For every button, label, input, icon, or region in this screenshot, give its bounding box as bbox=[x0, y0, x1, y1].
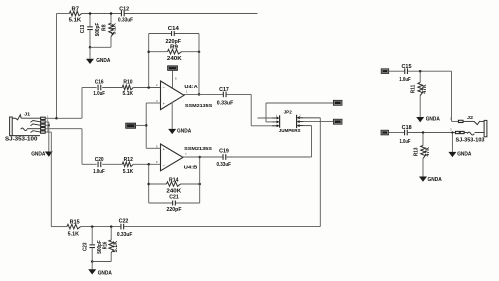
wire J1 ring down to C20 bbox=[45, 129, 96, 165]
net label (left of C18) bbox=[381, 130, 404, 135]
wire stub JP2 pin2 bbox=[303, 117, 320, 119]
op-amp U4:A SSM2135S bbox=[156, 81, 213, 110]
wire C19 to JP2 pin6 bbox=[226, 126, 311, 157]
svg-text:R14: R14 bbox=[169, 178, 179, 184]
resistor R11 bbox=[411, 83, 428, 96]
ground GNDA (J1) bbox=[31, 122, 53, 158]
svg-text:47K: 47K bbox=[425, 147, 431, 157]
wire C17 to JP2 pin5 bbox=[226, 94, 276, 125]
svg-text:GNDA: GNDA bbox=[428, 177, 443, 183]
svg-text:0.33uF: 0.33uF bbox=[217, 101, 234, 107]
wire feedback right riser B bbox=[198, 156, 201, 203]
svg-text:240K: 240K bbox=[167, 56, 182, 62]
ground GNDA (J2 sleeve) bbox=[448, 131, 471, 157]
svg-text:SJ-353-103: SJ-353-103 bbox=[456, 138, 485, 144]
svg-text:220pF: 220pF bbox=[167, 207, 182, 213]
resistor R16 bbox=[103, 240, 120, 253]
svg-text:C21: C21 bbox=[169, 195, 179, 201]
svg-text:C20: C20 bbox=[95, 157, 104, 163]
svg-text:R16: R16 bbox=[103, 242, 109, 250]
svg-text:R9: R9 bbox=[170, 45, 178, 51]
svg-text:SJ-353-100: SJ-353-100 bbox=[5, 136, 38, 142]
wire R12 to U4:B inverting input bbox=[133, 163, 160, 166]
svg-text:R7: R7 bbox=[72, 7, 80, 13]
svg-text:GNDA: GNDA bbox=[98, 271, 113, 277]
svg-text:0.33uF: 0.33uF bbox=[118, 18, 133, 24]
capacitor C16 bbox=[93, 80, 105, 98]
wire R9 rail bbox=[149, 50, 201, 53]
resistor R9 bbox=[167, 45, 182, 62]
ground GNDA (top-left) bbox=[86, 47, 111, 64]
capacitor C18 bbox=[400, 125, 412, 145]
svg-text:R10: R10 bbox=[123, 80, 132, 86]
svg-text:R13: R13 bbox=[413, 147, 419, 156]
wire feedback left riser A bbox=[147, 34, 150, 88]
net label VB (bias box) bbox=[126, 123, 147, 128]
svg-text:C14: C14 bbox=[168, 26, 179, 32]
svg-text:5.1K: 5.1K bbox=[113, 240, 119, 252]
wire J1 tip to node bbox=[45, 117, 82, 120]
svg-text:5.1K: 5.1K bbox=[123, 91, 134, 97]
wire C13 top bbox=[89, 12, 92, 26]
capacitor C22 bbox=[117, 219, 133, 239]
svg-text:J2: J2 bbox=[467, 115, 474, 120]
net label (JP2 upper right box) bbox=[333, 100, 342, 105]
svg-text:U4:A: U4:A bbox=[184, 84, 198, 90]
resistor R8 bbox=[101, 12, 117, 36]
wire R16 top bbox=[110, 227, 112, 240]
wire U4:A output to C17 bbox=[184, 93, 223, 95]
wire JP2 pin4 to net box bbox=[300, 121, 333, 123]
wire J1 switch to bottom rail bbox=[45, 132, 51, 227]
capacitor C20 bbox=[93, 157, 105, 175]
svg-text:C15: C15 bbox=[402, 64, 412, 70]
svg-text:1.0uF: 1.0uF bbox=[400, 139, 411, 145]
svg-text:C23: C23 bbox=[83, 242, 89, 251]
svg-text:C16: C16 bbox=[95, 80, 104, 86]
svg-text:1.0uF: 1.0uF bbox=[399, 77, 411, 83]
svg-text:SSM2135S: SSM2135S bbox=[185, 103, 213, 109]
wire to J2 tip pin bbox=[452, 71, 459, 121]
svg-text:0.33uF: 0.33uF bbox=[117, 232, 133, 238]
svg-text:GNDA: GNDA bbox=[457, 152, 472, 158]
capacitor C12 bbox=[118, 7, 133, 24]
jumper block JP2 bbox=[272, 109, 303, 133]
svg-text:GNDA: GNDA bbox=[31, 152, 46, 158]
capacitor C21 bbox=[167, 195, 182, 213]
wire bias to U4:B + input bbox=[146, 147, 160, 149]
wire feedback left riser B bbox=[147, 164, 150, 203]
resistor R14 bbox=[166, 178, 181, 195]
net label (left of C15) bbox=[381, 69, 404, 74]
ground GNDA (R13) bbox=[419, 158, 442, 183]
connector J1 (input jack) bbox=[5, 112, 49, 143]
wire feedback right riser A bbox=[198, 34, 201, 96]
wire stub JP2 pin3 bbox=[266, 121, 272, 123]
wire JP2 pin3 to net box bbox=[266, 103, 333, 122]
svg-text:5.1K: 5.1K bbox=[112, 23, 118, 35]
svg-text:C18: C18 bbox=[402, 125, 412, 131]
wire R11 top bbox=[419, 71, 421, 82]
svg-text:C17: C17 bbox=[219, 87, 229, 93]
capacitor C13 bbox=[80, 23, 101, 37]
wire bottom rail to JP2 bbox=[124, 226, 320, 228]
wire bias node to + inputs bbox=[145, 103, 161, 148]
wire R15 to C22 bbox=[81, 225, 121, 228]
svg-text:1.0uF: 1.0uF bbox=[93, 91, 105, 97]
capacitor C23 bbox=[83, 240, 104, 254]
svg-text:5.1K: 5.1K bbox=[68, 231, 80, 237]
svg-text:500pF: 500pF bbox=[95, 23, 101, 37]
svg-text:SSM2135S: SSM2135S bbox=[184, 146, 213, 152]
connector J2 (output jack) bbox=[450, 115, 487, 144]
wire C16 to R10 bbox=[102, 87, 122, 89]
svg-text:J1: J1 bbox=[24, 112, 31, 117]
svg-text:R15: R15 bbox=[70, 219, 80, 225]
svg-text:GNDA: GNDA bbox=[96, 58, 111, 64]
svg-text:1.0uF: 1.0uF bbox=[93, 169, 105, 175]
svg-text:C22: C22 bbox=[119, 219, 129, 225]
ground GNDA (bottom-left) bbox=[88, 262, 112, 277]
svg-text:5.1K: 5.1K bbox=[69, 17, 82, 23]
capacitor C17 bbox=[217, 87, 234, 106]
wire C15 to J2 riser bbox=[408, 70, 452, 73]
svg-text:240K: 240K bbox=[166, 189, 181, 195]
wire C23/R16 bottoms bbox=[91, 248, 111, 262]
svg-text:C13: C13 bbox=[80, 25, 86, 34]
wire C23 top bbox=[91, 227, 93, 245]
svg-text:0.33uF: 0.33uF bbox=[216, 162, 231, 168]
svg-text:R8: R8 bbox=[101, 24, 107, 31]
svg-text:47K: 47K bbox=[422, 84, 428, 94]
svg-text:GNDA: GNDA bbox=[426, 116, 441, 122]
wire C13/R8 bottoms bbox=[89, 30, 111, 48]
svg-text:C12: C12 bbox=[119, 7, 129, 13]
capacitor C14 bbox=[166, 26, 182, 45]
resistor R12 bbox=[122, 157, 133, 175]
ground GNDA (R11) bbox=[416, 96, 440, 123]
wire C20 to R12 bbox=[102, 163, 122, 165]
wire C18 to J2 ring pin bbox=[408, 131, 456, 134]
wire bottom rail left bbox=[51, 226, 67, 228]
net label VD (supply box above U4:A) bbox=[168, 66, 178, 88]
resistor R13 bbox=[413, 146, 431, 159]
wire J1 tip riser to top rail bbox=[56, 14, 58, 119]
svg-text:5.1K: 5.1K bbox=[123, 169, 134, 175]
svg-text:JUMPERS: JUMPERS bbox=[279, 128, 301, 133]
wire C21 rail bbox=[149, 202, 200, 204]
svg-text:R12: R12 bbox=[124, 157, 133, 163]
capacitor C19 bbox=[216, 149, 231, 168]
resistor R15 bbox=[67, 219, 81, 237]
wire top rail to JP2 pin1 bbox=[258, 117, 277, 119]
svg-text:GNDA: GNDA bbox=[177, 129, 192, 135]
ground GNDA (U4:A power) bbox=[168, 102, 191, 135]
net label (JP2 lower right box) bbox=[333, 119, 342, 124]
op-amp U4:B SSM2135S bbox=[156, 144, 213, 171]
wire R10 to U4:A inverting input bbox=[133, 86, 160, 89]
svg-text:R11: R11 bbox=[411, 85, 417, 94]
resistor R7 bbox=[69, 7, 82, 24]
wire feedback top rail A bbox=[149, 33, 199, 35]
wire riser to JP2 pin2 bbox=[298, 118, 320, 227]
wire U4:B output to C19 bbox=[183, 156, 223, 158]
resistor R10 bbox=[122, 80, 133, 98]
svg-text:U4:B: U4:B bbox=[184, 165, 198, 171]
wire stub JP2 pin6 bbox=[303, 125, 311, 127]
capacitor C15 bbox=[399, 64, 411, 83]
wire top rail bbox=[57, 13, 258, 15]
svg-text:C19: C19 bbox=[219, 149, 229, 155]
wire tip up to C16 bbox=[82, 88, 97, 119]
wire R14 rail bbox=[149, 183, 201, 186]
wire R13 top bbox=[422, 133, 424, 146]
svg-text:JP2: JP2 bbox=[284, 109, 293, 114]
